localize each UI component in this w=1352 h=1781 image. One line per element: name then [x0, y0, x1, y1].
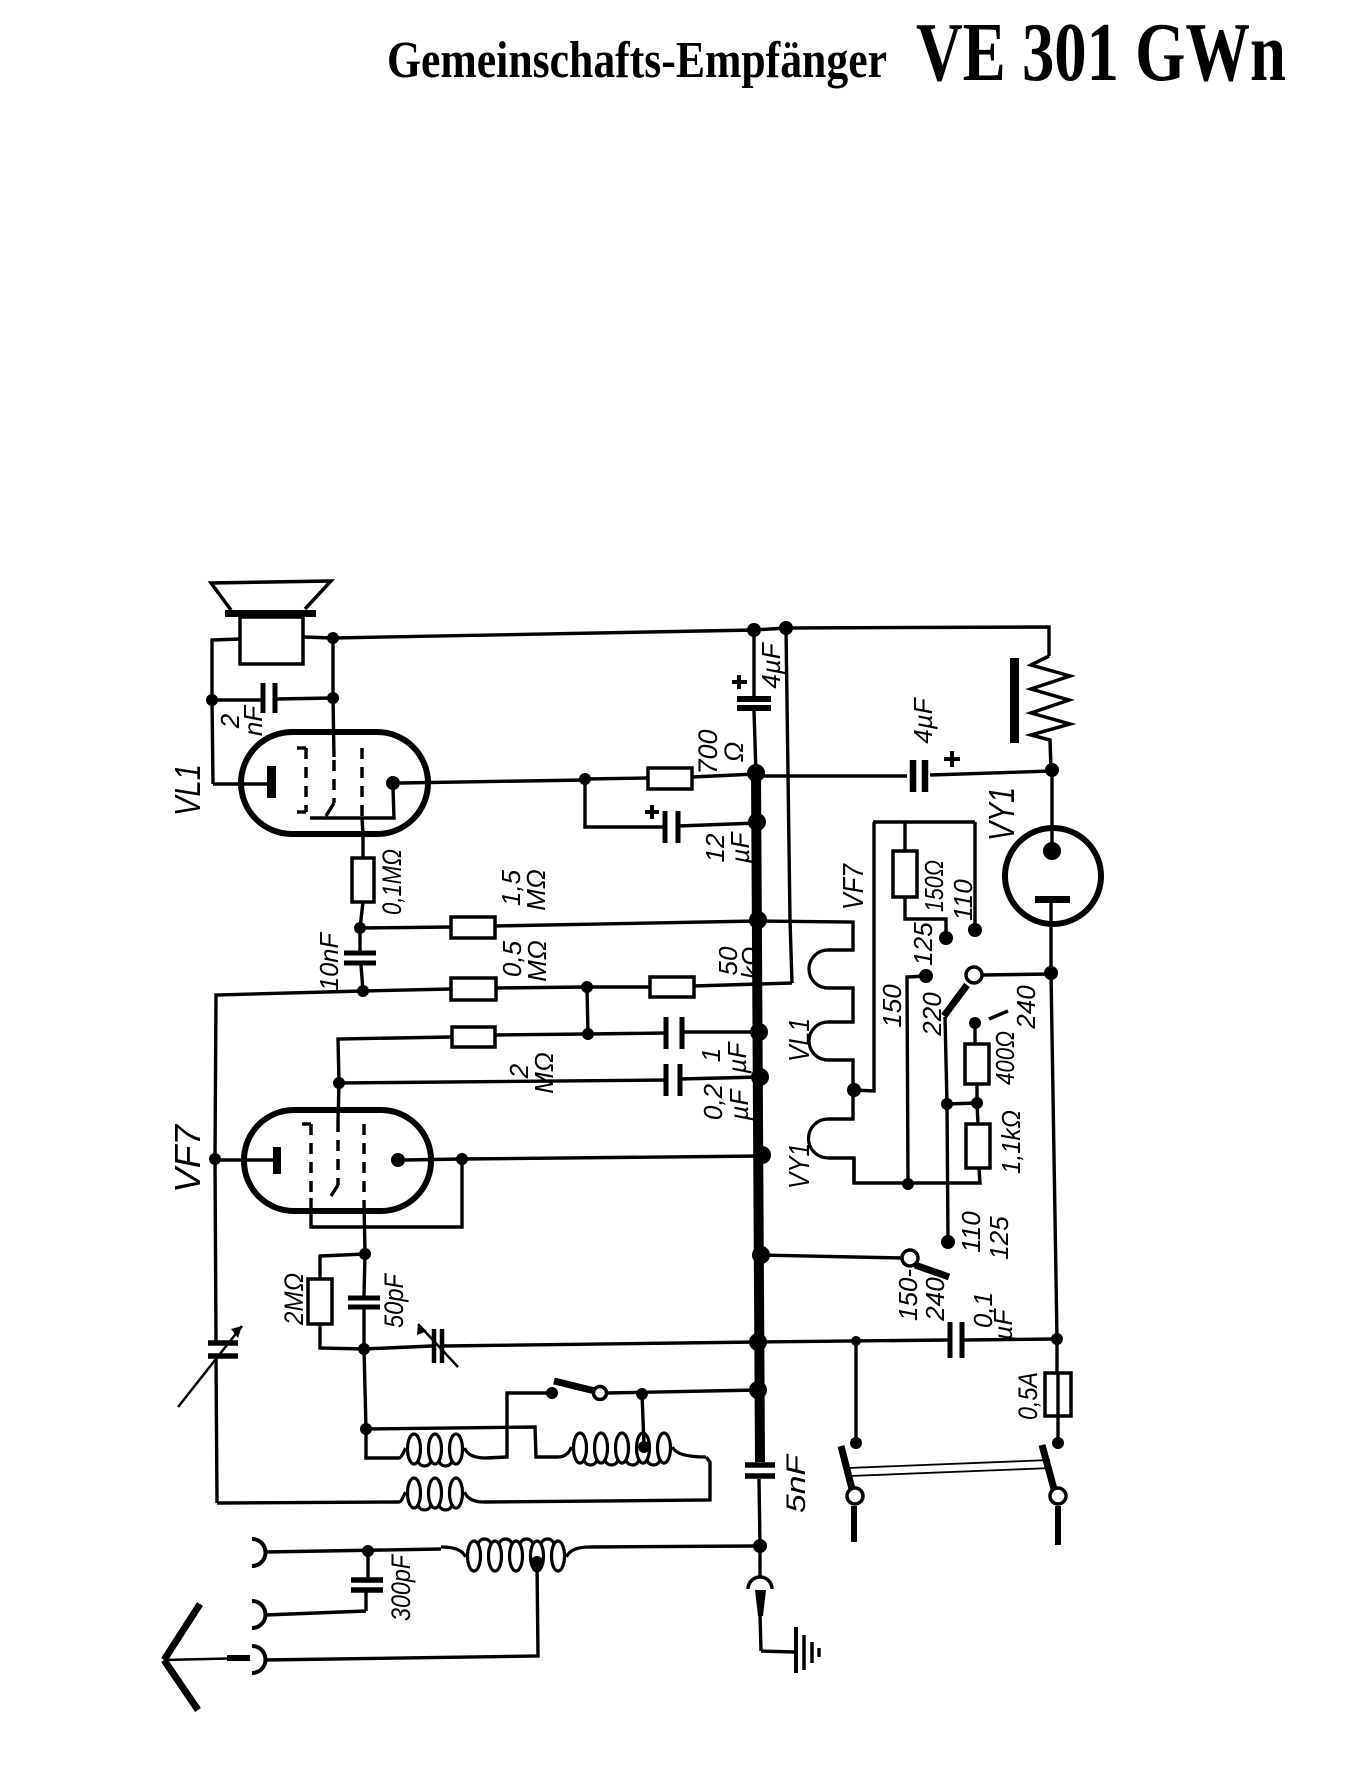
wire 125 tap [905, 897, 946, 938]
svg-text:240: 240 [1011, 985, 1041, 1030]
junction dot heater mid [847, 1083, 861, 1097]
tube VY1 envelope [1005, 828, 1101, 924]
wire bus to selector pivot [761, 1255, 902, 1258]
heater chain VF7 VL1 VY1 [758, 921, 853, 950]
coil L3 lower winding [408, 1478, 421, 1508]
junction dot bus VF7 cathode [753, 1146, 771, 1164]
svg-text:4µF: 4µF [756, 641, 786, 688]
wire earth socket to tap [264, 1562, 538, 1660]
junction dot 2nF right [327, 692, 339, 704]
wire 110 tap [973, 822, 976, 930]
svg-text:VY1: VY1 [981, 787, 1022, 841]
svg-text:MΩ: MΩ [522, 940, 552, 981]
VL1 anode bar [267, 766, 276, 798]
junction dot switch left [546, 1387, 558, 1399]
junction dot 2nF left [206, 694, 218, 706]
capacitor 2nF [261, 683, 266, 713]
VL1 screen lead from top [333, 698, 334, 757]
junction dot speaker right [327, 632, 339, 644]
svg-text:0,1MΩ: 0,1MΩ [377, 849, 407, 915]
wire heater mid tap [854, 822, 874, 1091]
svg-text:2MΩ: 2MΩ [279, 1273, 309, 1326]
wire tap link [947, 1103, 977, 1104]
junction dot VF7 anode line [209, 1153, 221, 1165]
resistor 2Mohm ladder [452, 1027, 495, 1047]
label 240 tick [989, 1011, 1008, 1019]
resistor 1.1kohm [966, 1124, 990, 1168]
VF7 cathode dot [391, 1153, 405, 1167]
ground symbol [761, 1651, 794, 1652]
VF7 anode bar [273, 1147, 281, 1174]
junction dot VY1 top node [1045, 763, 1059, 777]
wire coilC left lead [217, 1502, 399, 1503]
svg-text:0,5A: 0,5A [1013, 1372, 1043, 1420]
svg-text:Ω: Ω [719, 742, 749, 763]
capacitor 10nF [358, 928, 361, 951]
wire switch tap down [642, 1394, 644, 1445]
svg-text:µF: µF [724, 1087, 754, 1121]
junction dot 2M right [582, 1028, 594, 1040]
wire bus below 5nF [759, 1479, 760, 1546]
VY1 cathode dot [1043, 842, 1061, 860]
junction dot left pole [850, 1437, 862, 1449]
terminal dot 150 [919, 969, 933, 983]
svg-text:110: 110 [956, 1211, 986, 1253]
junction dot bus selector [752, 1246, 770, 1264]
mains plug pin right [1055, 1506, 1061, 1545]
loudspeaker [211, 581, 331, 610]
svg-text:150-: 150- [893, 1269, 923, 1321]
tuning cap arrow [178, 1326, 242, 1407]
resistor 400ohm [965, 1044, 989, 1084]
wire antenna coil right [590, 1546, 756, 1547]
svg-text:1,1kΩ: 1,1kΩ [996, 1110, 1026, 1174]
svg-text:240: 240 [920, 1277, 950, 1322]
wire node vertical [587, 987, 588, 1034]
VF7 grid3 lead down [364, 1201, 365, 1254]
capacitor 50pF [364, 1254, 365, 1296]
junction dot 300pF [362, 1545, 374, 1557]
resistor 0.1Mohm [352, 858, 374, 902]
wire grid to coil B [366, 1427, 558, 1457]
resistor 700ohm [648, 768, 692, 789]
tube VF7 envelope [244, 1110, 431, 1211]
mains plug pin left [851, 1506, 857, 1542]
svg-text:µF: µF [722, 1040, 752, 1074]
svg-text:10nF: 10nF [314, 931, 344, 991]
plus sign 4uF left [732, 680, 747, 684]
svg-text:MΩ: MΩ [521, 869, 551, 910]
mains switch right pivot [1050, 1488, 1066, 1504]
svg-text:400Ω: 400Ω [990, 1031, 1020, 1085]
wire 110-125 tap down [947, 1104, 948, 1242]
wire coilB right down [484, 1457, 710, 1502]
junction dot fuse top [1051, 1333, 1063, 1345]
wire HT vertical line [786, 628, 792, 983]
svg-text:VE 301 GWn: VE 301 GWn [916, 6, 1286, 99]
resistor 1.5Mohm [451, 917, 495, 938]
junction dot 0.5M right [581, 981, 593, 993]
wire VF7 cathode out [405, 1159, 462, 1160]
wire switch to bus [607, 1390, 758, 1393]
junction dot grid2 node [333, 1077, 345, 1089]
resistor 0.5Mohm [451, 978, 496, 1000]
wire VF7 cathode to bus [462, 1156, 762, 1159]
wire top HT rail [333, 627, 1049, 656]
wire anode line down [1051, 973, 1057, 1339]
selector pivot bottom [902, 1250, 918, 1266]
variable capacitor tuning [215, 1159, 216, 1341]
VY1 anode bar [1035, 896, 1070, 903]
selector pivot top [966, 967, 982, 983]
junction dot grid node lower [358, 1343, 370, 1355]
VY1 cathode lead [1050, 770, 1053, 845]
capacitor 4uF right [910, 760, 917, 792]
junction dot bus antenna [753, 1539, 767, 1553]
junction dot switch right [636, 1388, 648, 1400]
svg-text:µF: µF [988, 1307, 1018, 1341]
wire speaker right to node A [303, 637, 333, 638]
wire speaker left to node [212, 639, 240, 700]
wire grid to coils [364, 1349, 366, 1429]
svg-text:4µF: 4µF [908, 696, 938, 743]
wire left pole [854, 1341, 857, 1443]
junction dot VY1 anode node [1044, 966, 1058, 980]
coil L1 left winding [408, 1434, 421, 1464]
wire coilA right to switch [486, 1393, 552, 1458]
junction dot rail-HTline [779, 621, 793, 635]
wire grid line left [215, 991, 363, 1159]
switch wave pivot [594, 1387, 607, 1400]
svg-text:kΩ: kΩ [736, 947, 766, 980]
svg-text:150: 150 [877, 984, 907, 1028]
junction dot coil node [360, 1423, 372, 1435]
antenna symbol [164, 1604, 200, 1660]
heating element bar [1010, 658, 1019, 743]
coil L4 antenna winding [468, 1541, 481, 1571]
trimmer capacitor [364, 1346, 432, 1349]
capacitor 0.2uF [339, 1080, 666, 1083]
plus sign 12uF [645, 810, 659, 814]
junction dot bus 12uF [748, 813, 766, 831]
mains switch left pivot [847, 1488, 863, 1504]
svg-text:VL1: VL1 [784, 1018, 816, 1062]
wire VL1 cathode out [400, 780, 585, 783]
junction dot bus heater [749, 911, 767, 929]
capacitor 1uF [588, 1033, 666, 1034]
junction dot bus trimmer [749, 1333, 767, 1351]
junction dot switch pole tee [851, 1336, 861, 1346]
svg-text:125: 125 [984, 1216, 1014, 1260]
svg-text:5nF: 5nF [781, 1453, 811, 1513]
junction dot grid3 node [359, 1248, 371, 1260]
trimmer arrow [418, 1324, 458, 1367]
wire coilA lead [366, 1429, 399, 1458]
junction dot 0.1M bottom [354, 922, 366, 934]
junction dot bus 700 [747, 764, 765, 782]
VF7 grid dashes [309, 1124, 313, 1198]
svg-text:µF: µF [725, 830, 755, 864]
junction dot coil tap [638, 1441, 650, 1453]
junction dot cathode node [579, 773, 591, 785]
capacitor 4uF left [752, 630, 755, 696]
wire node A vertical [331, 638, 334, 698]
socket jack 2 [252, 1601, 266, 1628]
capacitor 0.1uF [948, 1322, 953, 1358]
capacitor 5nF [745, 1462, 775, 1468]
svg-text:nF: nF [238, 704, 268, 736]
coil L2 right winding [574, 1433, 587, 1463]
junction dot 400-1.1k [971, 1097, 983, 1109]
plus sign 4uF right [944, 757, 960, 761]
wire socket2 [265, 1611, 366, 1615]
switch coupling link [848, 1460, 1050, 1468]
terminal dot 110-125 bottom [941, 1235, 955, 1249]
VL1 cathode dot [386, 776, 400, 790]
resistor mains dropper zigzag [1031, 656, 1070, 770]
wire heater bottom rail [854, 1158, 980, 1183]
socket jack 3 [252, 1646, 266, 1673]
junction dot 10nF bottom [357, 985, 369, 997]
mains switch left lever [841, 1446, 852, 1489]
tube VL1 envelope [241, 732, 428, 834]
VL1 grid dashes [304, 748, 308, 812]
resistor 2Mohm grid leak [308, 1279, 332, 1324]
svg-text:300pF: 300pF [386, 1554, 416, 1621]
svg-text:150Ω: 150Ω [919, 860, 949, 912]
resistor 50kohm [650, 977, 694, 997]
terminal dot 125 [939, 931, 953, 945]
svg-text:VL1: VL1 [167, 764, 208, 816]
wire selector rail [873, 820, 975, 823]
capacitor 12uF electrolytic [585, 779, 664, 827]
mains switch right lever [1042, 1445, 1054, 1489]
svg-text:MΩ: MΩ [529, 1052, 559, 1093]
spark gap [758, 1546, 761, 1577]
socket jack 1 [252, 1539, 266, 1566]
terminal dot 110 [968, 923, 982, 937]
selector lever top [944, 985, 967, 1016]
VL1 interior cathode link [310, 788, 394, 818]
svg-text:VF7: VF7 [838, 862, 870, 910]
bus chassis rail thick [756, 773, 760, 1462]
svg-text:110: 110 [948, 879, 978, 921]
junction dot 220-node [941, 1098, 953, 1110]
switch wave lever [554, 1381, 595, 1391]
VF7 grid lead from top [338, 1083, 339, 1121]
resistor 150ohm [893, 851, 917, 897]
wire antenna socket [265, 1549, 441, 1552]
junction dot right pole [1052, 1437, 1064, 1449]
svg-text:VF7: VF7 [167, 1123, 208, 1193]
junction dot bus 0.2uF [751, 1068, 769, 1086]
junction dot antenna coil tap [531, 1556, 543, 1568]
wire VL1 left lead [212, 700, 213, 784]
svg-text:50pF: 50pF [379, 1273, 409, 1328]
fuse 0.5A [1045, 1373, 1071, 1416]
junction dot rail 150 [902, 1178, 914, 1190]
svg-text:VY1: VY1 [784, 1143, 816, 1189]
wire pivot to anode line [982, 974, 1051, 975]
junction dot bus switch [749, 1381, 767, 1399]
svg-text:Gemeinschafts-Empfänger: Gemeinschafts-Empfänger [387, 32, 887, 89]
svg-text:125: 125 [908, 922, 938, 966]
junction dot rail-4uF [747, 623, 761, 637]
junction dot bus 1uF [750, 1023, 768, 1041]
wire grid1 tie U-link [311, 1159, 462, 1227]
terminal dot 240 [969, 1017, 981, 1029]
VL1 grid3 lead to resistor [362, 818, 363, 834]
junction dot VF7 cathode [456, 1153, 468, 1165]
wire 150 tap [907, 976, 926, 1184]
capacitor 300pF [366, 1551, 369, 1578]
wire 220 tap down [945, 1017, 947, 1104]
selector lever bottom [915, 1265, 949, 1277]
